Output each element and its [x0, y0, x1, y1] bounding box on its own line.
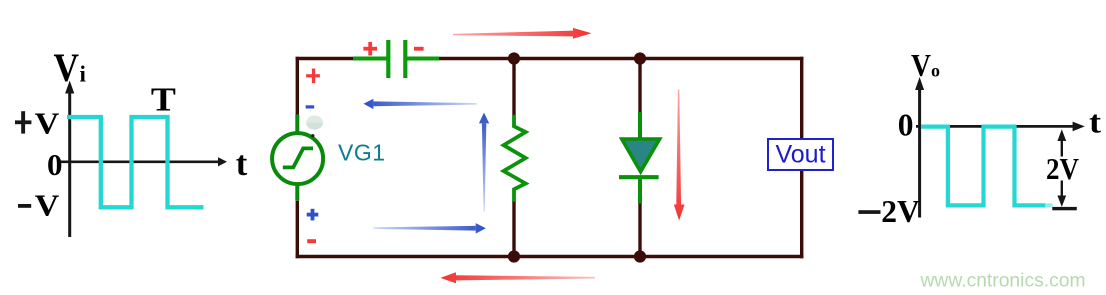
svg-text:Vout: Vout	[775, 141, 825, 169]
svg-text:www.cntronics.com: www.cntronics.com	[920, 271, 1086, 292]
label - capacitor polarity	[414, 47, 424, 51]
svg-text:V: V	[35, 105, 60, 140]
capacitor C1	[353, 40, 439, 78]
junction node top of diode	[634, 52, 646, 64]
wire resistor branch	[512, 59, 515, 257]
wire diode branch	[638, 59, 641, 257]
left graph t axis	[60, 157, 228, 166]
svg-text:t: t	[236, 144, 248, 183]
artifact blob (no component)	[306, 116, 323, 138]
label + capacitor polarity	[363, 42, 377, 56]
wire right side	[800, 57, 803, 258]
current arrow red through diode (downward)	[674, 90, 685, 221]
svg-text:V: V	[54, 45, 80, 90]
current arrow red top (rightward)	[453, 28, 592, 39]
label + source bottom (blue)	[307, 209, 319, 221]
label + source top (red)	[306, 69, 320, 84]
label +V	[15, 111, 31, 133]
current arrow blue upper (leftward)	[364, 99, 477, 109]
svg-text:2V: 2V	[881, 194, 920, 229]
label - source bottom (red)	[307, 239, 316, 243]
wire left side	[296, 57, 299, 258]
svg-text:V: V	[35, 188, 60, 223]
diode D1	[619, 112, 660, 204]
junction node bottom of diode	[634, 250, 646, 262]
right graph Vo vertical axis	[915, 77, 924, 218]
label -2V	[858, 210, 880, 214]
current arrow blue lower (rightward)	[374, 223, 486, 234]
svg-text:2V: 2V	[1046, 151, 1080, 186]
node Vout label box	[768, 139, 833, 170]
label - source (blue)	[306, 105, 315, 108]
left graph Vi vertical axis	[65, 81, 74, 238]
svg-text:0: 0	[47, 147, 63, 182]
current arrow red bottom (leftward)	[441, 272, 596, 283]
voltage source VG1	[272, 115, 323, 201]
junction node bottom of resistor	[508, 250, 520, 262]
measure arrow 2V	[1061, 140, 1063, 200]
wire bottom side	[296, 255, 804, 258]
label -V	[18, 204, 31, 208]
right graph t axis	[916, 122, 1085, 132]
junction node top of resistor	[508, 52, 520, 64]
svg-text:0: 0	[898, 107, 914, 142]
svg-text:V: V	[911, 48, 931, 83]
svg-text:t: t	[1089, 104, 1101, 140]
Vo waveform	[921, 127, 1053, 206]
svg-text:T: T	[151, 82, 176, 119]
svg-text:VG1: VG1	[338, 140, 386, 166]
svg-text:o: o	[931, 61, 940, 81]
Vi waveform	[67, 117, 204, 207]
svg-text:i: i	[80, 61, 87, 86]
current arrow blue middle (upward)	[479, 113, 489, 212]
wire top side	[296, 57, 804, 60]
resistor R1	[504, 115, 526, 202]
